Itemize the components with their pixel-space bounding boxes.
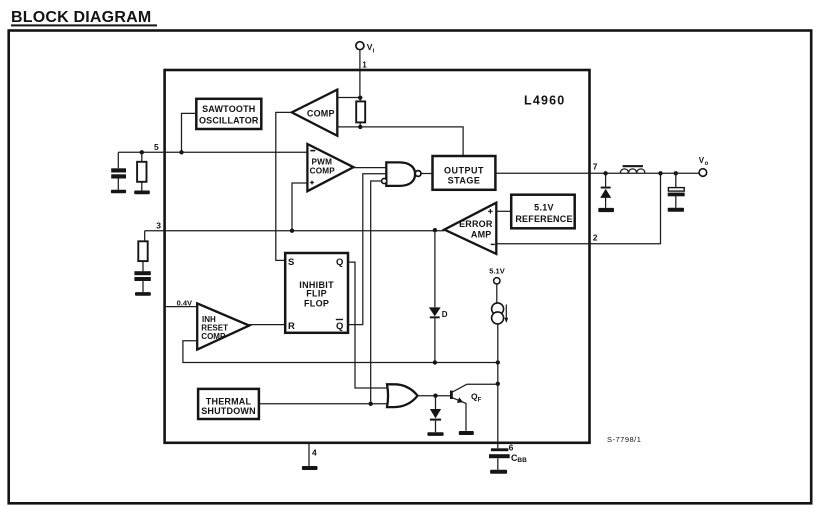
wire NAND output to output stage [421, 173, 433, 175]
svg-text:2: 2 [593, 232, 598, 242]
OR gate [387, 384, 418, 407]
node resistor bottom [358, 125, 362, 129]
5.1V terminal [494, 278, 500, 284]
node comp tap [290, 229, 294, 233]
ground [302, 466, 318, 470]
ground [134, 191, 150, 195]
wire COMP output to flip-flop S input [276, 112, 292, 260]
node supply sense top [358, 96, 362, 100]
NAND input bubble [382, 178, 387, 183]
wire INH output to flip-flop R [249, 325, 285, 326]
svg-text:BB: BB [517, 457, 527, 464]
wire pin 7 output line [495, 172, 699, 174]
wire soft start to pin 6 [497, 363, 499, 449]
svg-text:BLOCK DIAGRAM: BLOCK DIAGRAM [11, 9, 151, 26]
svg-text:Q: Q [336, 321, 343, 332]
wire INH lower input soft-start line [183, 341, 498, 363]
svg-text:SAWTOOTH: SAWTOOTH [202, 104, 255, 114]
svg-text:THERMAL: THERMAL [206, 396, 252, 406]
svg-text:D: D [442, 310, 448, 319]
node pin5 resistor tap [140, 150, 144, 154]
svg-text:STAGE: STAGE [448, 176, 481, 186]
svg-text:S: S [288, 257, 294, 268]
wire sawtooth oscillator to pin 5 line [182, 113, 197, 152]
Vi input terminal [356, 42, 364, 50]
IC boundary L4960 [165, 70, 590, 443]
svg-text:OUTPUT: OUTPUT [444, 165, 484, 175]
wire flip-flop Q-bar to NAND middle input [348, 174, 386, 325]
resistor on pin 5 [141, 152, 143, 190]
output stage box [433, 156, 496, 190]
wire feedback to pin 2 [496, 173, 660, 243]
svg-text:5: 5 [154, 142, 159, 152]
ground [427, 432, 443, 436]
wire COMP top input [337, 97, 360, 99]
svg-text:7: 7 [593, 161, 598, 171]
svg-text:COMP: COMP [201, 332, 226, 341]
svg-text:L4960: L4960 [524, 94, 565, 108]
svg-text:F: F [478, 398, 482, 404]
svg-text:SHUTDOWN: SHUTDOWN [201, 406, 256, 416]
node sawtooth tap [179, 150, 183, 154]
ground [459, 431, 474, 435]
node D2 tap [433, 394, 437, 398]
diode D2 [435, 396, 437, 433]
svg-text:3: 3 [156, 221, 161, 231]
ground [135, 292, 151, 296]
NAND gate U1 [386, 162, 415, 186]
wire error amp + input to reference [496, 210, 511, 212]
wire 0.4V input [166, 306, 197, 308]
error amplifier [444, 203, 496, 254]
node catch diode tap [603, 171, 607, 175]
node diode D bottom [433, 360, 437, 364]
svg-text:S-7798/1: S-7798/1 [607, 435, 641, 444]
resistor R1 [356, 101, 365, 122]
wire QF collector [467, 383, 498, 385]
svg-text:5.1V: 5.1V [489, 266, 504, 275]
svg-text:COMP: COMP [310, 167, 336, 176]
reference box 5.1V [511, 195, 575, 229]
node feedback tap [658, 171, 662, 175]
resistor on pin 3 [143, 231, 145, 272]
wire current source to soft start node [497, 324, 499, 363]
svg-text:ERROR: ERROR [459, 219, 493, 229]
comparator COMP [292, 90, 338, 136]
wire resistor bottom to output stage top [360, 127, 463, 156]
NAND output bubble [415, 171, 421, 177]
ground [598, 208, 614, 212]
node soft start [496, 360, 500, 364]
capacitor on pin 3 [134, 271, 150, 275]
catch diode [605, 173, 607, 208]
svg-text:R: R [288, 321, 295, 332]
inductor L [620, 169, 645, 173]
wire to PWM + input [292, 183, 307, 231]
capacitor on pin 5 [117, 152, 119, 190]
svg-text:4: 4 [312, 448, 317, 458]
ground [490, 470, 507, 474]
svg-text:AMP: AMP [471, 229, 492, 239]
wire thermal shutdown to OR gate [259, 403, 390, 405]
wire OR output to QF base [418, 395, 450, 397]
diode D [434, 230, 436, 362]
INH reset comparator [197, 303, 249, 349]
svg-text:REFERENCE: REFERENCE [515, 214, 572, 224]
current source [496, 284, 498, 303]
wire flip-flop Q to OR gate [348, 262, 390, 388]
PWM comparator [307, 144, 353, 191]
svg-text:PWM: PWM [311, 158, 332, 167]
node QF collector tap [496, 382, 500, 386]
ground [111, 190, 126, 194]
wire pin 5 line [118, 151, 306, 153]
svg-text:o: o [705, 161, 709, 167]
svg-text:1: 1 [362, 61, 367, 70]
wire PWM output to NAND top input [353, 167, 387, 169]
svg-text:5.1V: 5.1V [534, 203, 554, 213]
thermal shutdown box [198, 389, 259, 419]
svg-text:6: 6 [509, 442, 514, 452]
svg-text:Q: Q [336, 257, 343, 268]
node error amp output / diode D tap [433, 228, 437, 232]
Vo output terminal [699, 169, 707, 177]
output capacitor [675, 173, 677, 208]
capacitor CBB [491, 448, 509, 451]
svg-text:OSCILLATOR: OSCILLATOR [199, 116, 259, 126]
sawtooth oscillator box [196, 99, 261, 129]
svg-text:COMP: COMP [307, 109, 335, 119]
svg-text:i: i [373, 49, 375, 55]
wire NAND inverted input to thermal line [371, 181, 382, 404]
wire pin 3 / error amp output line [145, 230, 445, 232]
node output cap tap [674, 171, 678, 175]
inhibit flip flop box [285, 253, 348, 333]
transistor QF [450, 391, 453, 399]
svg-text:FLOP: FLOP [304, 298, 329, 308]
svg-text:FLIP: FLIP [306, 289, 327, 299]
ground [668, 208, 684, 212]
node thermal NAND tap [369, 402, 373, 406]
wire COMP bottom input [337, 126, 360, 128]
